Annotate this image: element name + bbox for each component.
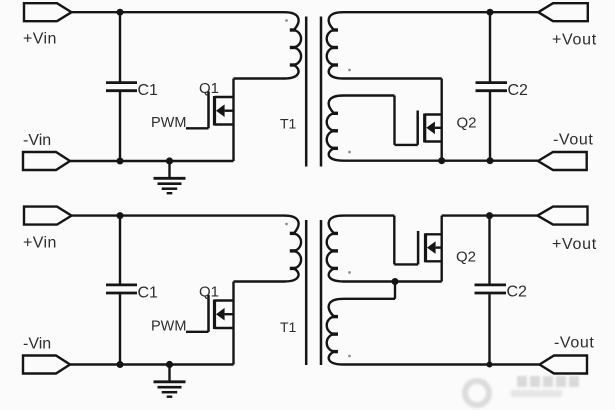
terminal +Vout (bottom circuit)	[538, 207, 588, 225]
svg-text:T1: T1	[280, 116, 297, 132]
transistor Q1 (bottom circuit)	[209, 282, 234, 365]
terminal -Vout (bottom circuit)	[540, 356, 588, 374]
wire secondary2 top (bottom)	[344, 298, 396, 300]
svg-text:T1: T1	[280, 319, 297, 335]
wire C1 upper lead	[119, 12, 121, 81]
secondary 1 cusp nubs (top)	[332, 30, 338, 65]
wire gate feed vertical	[393, 96, 395, 145]
svg-text:-Vin: -Vin	[23, 132, 51, 149]
wire C1 lower lead (bottom)	[119, 294, 121, 364]
junction C1 bottom	[117, 158, 124, 165]
transformer core (bottom circuit)	[306, 220, 321, 365]
terminal -Vin (top circuit)	[23, 152, 70, 170]
junction C2 bottom	[487, 157, 494, 164]
wire secondary2 top toward gate	[344, 94, 395, 96]
transistor Q1 (top circuit)	[209, 79, 234, 162]
watermark text blocks	[517, 376, 527, 387]
svg-text:C1: C1	[138, 82, 159, 99]
svg-text:C2: C2	[507, 283, 528, 300]
wire secondary2 bottom to -Vout (bottom)	[344, 363, 540, 365]
transistor Q2 (top circuit)	[418, 79, 442, 161]
wire -Vin to Q1 source (bottom)	[70, 363, 234, 365]
junction C1 bottom lead (bottom)	[117, 361, 124, 368]
primary winding cusp nubs (top)	[290, 30, 296, 65]
svg-text:+Vout: +Vout	[552, 236, 597, 253]
transformer T1 secondary winding 2 (top circuit)	[327, 96, 344, 161]
wire gate feed horizontal (bottom)	[394, 263, 418, 265]
polarity dot secondary 1 (top)	[348, 69, 351, 72]
svg-text:+Vin: +Vin	[23, 31, 57, 48]
wire secondary1 bottom to Q2 source (bottom)	[344, 280, 442, 282]
wire gate feed vertical (bottom)	[393, 216, 395, 265]
wire Q1 drain to primary bottom	[234, 77, 285, 79]
wire +Vin to primary top (bottom)	[72, 214, 285, 216]
svg-text:PWM: PWM	[151, 319, 186, 335]
terminal +Vout (top circuit)	[538, 3, 588, 21]
junction ground	[166, 157, 173, 164]
wire secondary1 bottom to Q2 drain	[344, 77, 442, 79]
capacitor C1 (bottom circuit)	[106, 285, 137, 293]
secondary 2 cusp nubs (bottom)	[332, 317, 338, 352]
wire secondary1 top toward gate (bottom)	[344, 214, 395, 216]
terminal +Vin (bottom circuit)	[24, 207, 72, 225]
secondary 2 cusp nubs (top)	[332, 113, 338, 148]
junction Q2 source	[438, 157, 445, 164]
terminal +Vin (top circuit)	[24, 3, 72, 21]
junction ground (bottom)	[166, 361, 173, 368]
wire +Vin to primary top	[72, 11, 285, 13]
polarity dot secondary 2 (bottom)	[348, 355, 351, 358]
svg-text:-Vout: -Vout	[553, 132, 593, 149]
junction winding link (bottom)	[392, 278, 399, 285]
wire PWM to gate	[186, 127, 209, 129]
capacitor C2 (top circuit)	[476, 12, 508, 161]
wire -Vin to Q1 source	[70, 160, 234, 162]
svg-text:-Vin: -Vin	[23, 336, 51, 353]
secondary 1 cusp nubs (bottom)	[332, 233, 338, 268]
wire Q1 drain to primary bottom (bottom)	[234, 280, 285, 282]
transformer T1 secondary winding 1 (bottom circuit)	[327, 216, 344, 282]
junction C2 bottom lead (bottom)	[487, 362, 493, 368]
svg-text:+Vout: +Vout	[552, 32, 597, 49]
svg-text:Q1: Q1	[199, 80, 219, 97]
wire gate feed horizontal	[395, 144, 418, 146]
transformer T1 secondary winding 1 (top circuit)	[327, 12, 344, 78]
transformer T1 secondary winding 2 (bottom circuit)	[327, 299, 344, 365]
svg-text:PWM: PWM	[151, 115, 186, 131]
capacitor C2 (bottom circuit)	[475, 216, 507, 365]
svg-text:-Vout: -Vout	[554, 335, 594, 352]
junction C2 top	[487, 9, 494, 16]
wire secondary1 top to +Vout	[344, 11, 539, 13]
terminal -Vin (bottom circuit)	[23, 356, 70, 374]
wire C1 lower lead	[119, 92, 121, 161]
ground (bottom circuit)	[154, 365, 186, 397]
wire C1 upper lead (bottom)	[119, 216, 121, 284]
polarity dot secondary 2 (top)	[348, 151, 351, 154]
svg-text:C2: C2	[508, 82, 529, 99]
wire Q2 drain to +Vout (bottom)	[442, 214, 538, 216]
svg-text:Q1: Q1	[199, 284, 219, 301]
transistor Q2 (bottom circuit)	[418, 216, 442, 282]
watermark logo ring	[462, 378, 492, 408]
ground (top circuit)	[154, 161, 186, 193]
junction C1 top (bottom)	[117, 212, 124, 219]
svg-text:+Vin: +Vin	[23, 235, 57, 252]
svg-text:Q2: Q2	[456, 249, 476, 266]
svg-text:C1: C1	[138, 285, 159, 302]
wire PWM to gate (bottom)	[186, 331, 209, 333]
primary winding cusp nubs (bottom)	[290, 233, 296, 268]
polarity dot primary (bottom)	[285, 223, 288, 226]
transformer core (top circuit)	[306, 17, 321, 167]
junction C1 top	[117, 9, 124, 16]
wire winding link vertical (bottom)	[394, 282, 396, 299]
polarity dot primary (top)	[285, 19, 288, 22]
terminal -Vout (top circuit)	[538, 152, 587, 170]
junction C2 top (bottom)	[486, 212, 493, 219]
polarity dot secondary 1 (bottom)	[348, 271, 351, 274]
wire secondary2 bottom to -Vout	[344, 159, 539, 161]
transformer T1 primary winding (top circuit)	[284, 12, 301, 78]
svg-text:Q2: Q2	[457, 115, 477, 132]
transformer T1 primary winding (bottom circuit)	[284, 216, 301, 282]
capacitor C1 (top)	[106, 83, 137, 91]
